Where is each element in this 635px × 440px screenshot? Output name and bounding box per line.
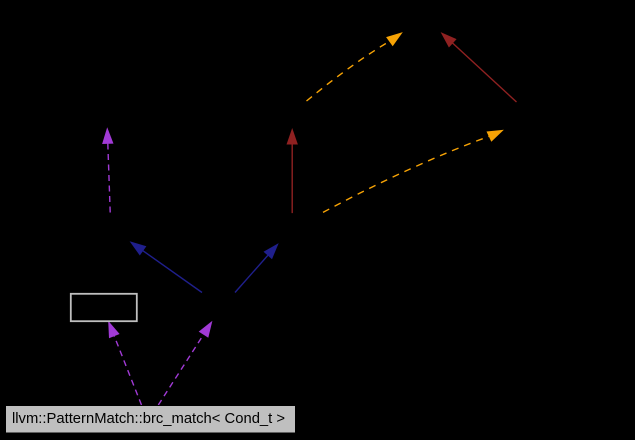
wire: private inheritance vertical (dark red solid) bbox=[287, 128, 298, 213]
wire: usage edge brc_match to node above (purple dashed) bbox=[158, 321, 212, 405]
wire: usage edge to top-left node (purple dashed) bbox=[102, 127, 113, 212]
wire: inheritance edge up-left (blue solid) bbox=[130, 241, 202, 292]
wire: usage edge brc_match to Cond_t (purple dashed) bbox=[108, 321, 141, 405]
wire: inheritance edge up-right (blue solid) bbox=[235, 243, 279, 292]
wire: template relation short (orange dashed) bbox=[307, 32, 403, 101]
wire: template relation long (orange dashed) bbox=[323, 130, 504, 213]
node llvm::PatternMatch::brc_match< Cond_t > (grey filled box) bbox=[6, 406, 296, 434]
svg-text:llvm::PatternMatch::brc_match<: llvm::PatternMatch::brc_match< Cond_t > bbox=[12, 411, 285, 427]
node Cond_t (grey outlined box, label invisible) bbox=[71, 294, 137, 321]
wire: private inheritance diagonal (dark red solid) bbox=[441, 32, 517, 102]
